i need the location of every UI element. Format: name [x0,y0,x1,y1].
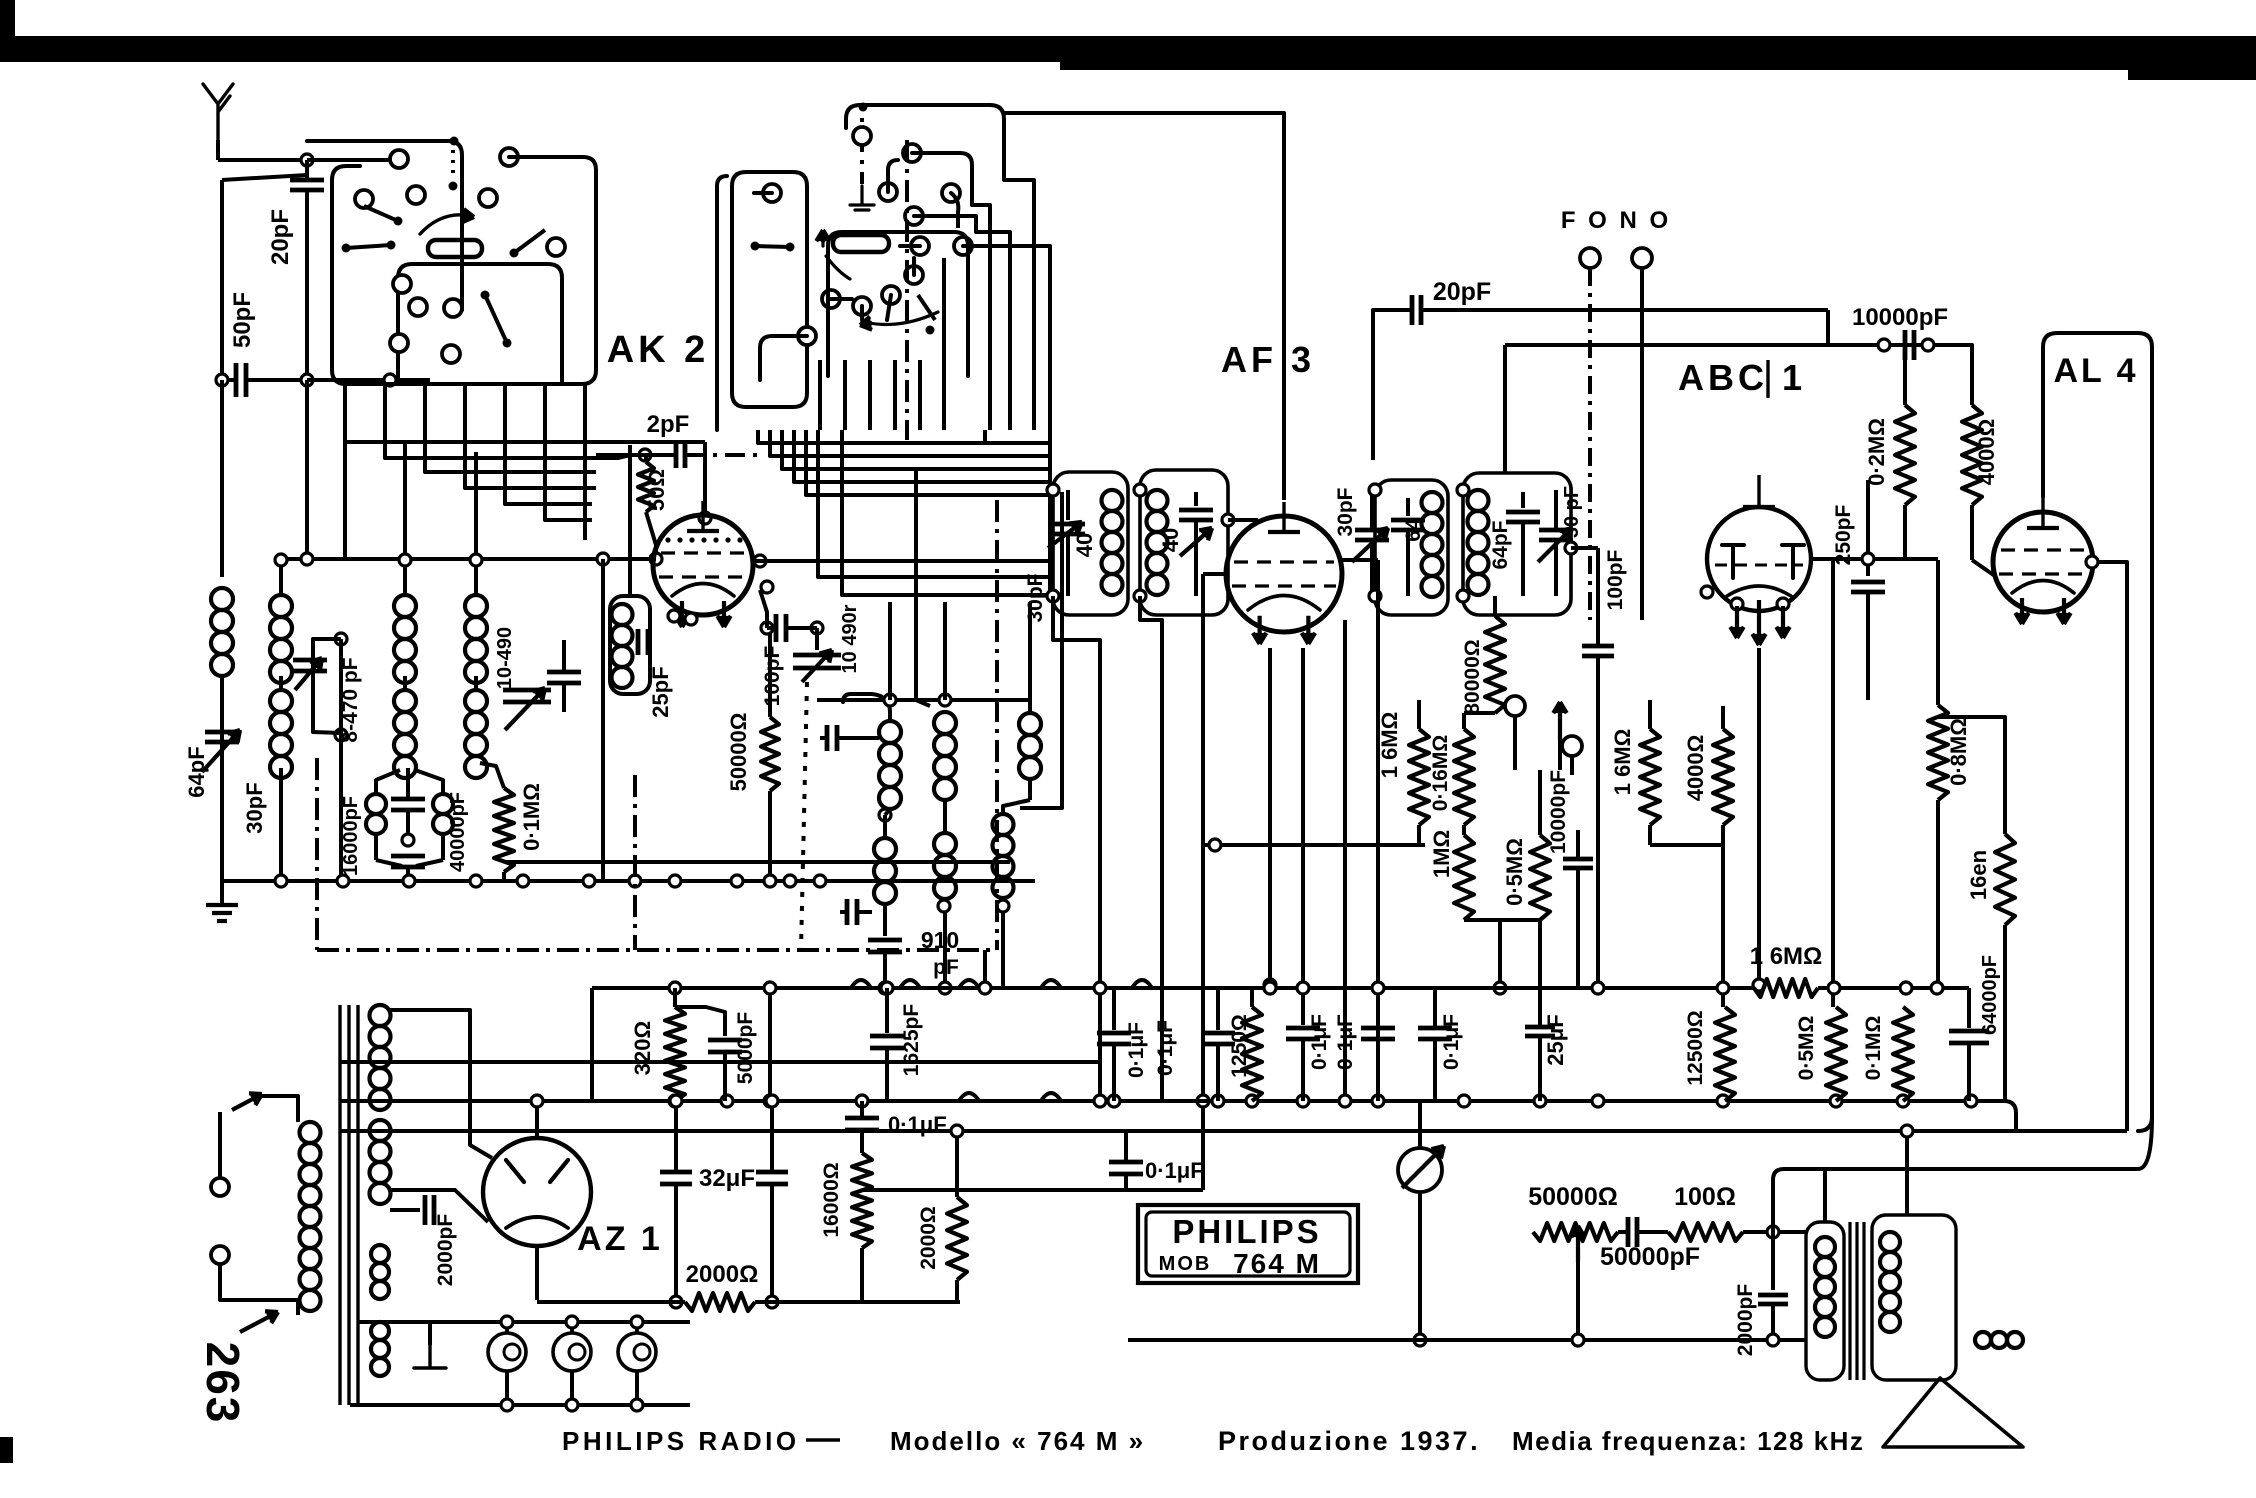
resistor 320Ω [665,1007,685,1101]
bus junction dots R4 [669,1095,681,1107]
power transformer secondary top [370,1005,391,1026]
shield dash-dot vertical right [995,500,999,950]
power transformer secondary bottom [371,1322,389,1340]
caption dash [806,1438,840,1442]
switch S1 contact a [390,150,408,168]
resistor 100Ω tone [1668,1223,1743,1241]
switch S2 contact top [853,127,871,145]
wire mains bottom [220,1264,298,1315]
svg-text:AZ 1: AZ 1 [577,1220,663,1258]
svg-text:F O N O: F O N O [1561,207,1671,234]
FONO terminal left [1580,248,1600,268]
resistor 0.6MΩ [1454,729,1474,825]
dial lamp rail bottom [350,1403,690,1407]
wire osc B to rail [943,899,947,988]
wire IF1 to AF3 [1228,518,1258,522]
svg-text:320Ω: 320Ω [630,1021,655,1075]
wire L3 column [403,440,407,595]
svg-text:50pF: 50pF [229,292,256,348]
switch S1 lever 4 [510,249,519,258]
IF1 can left outline [1053,472,1128,615]
oscillator coil B upper [934,712,956,734]
wire drop x1203 [1201,845,1205,1190]
shield dash-dot vertical left [633,775,637,950]
capacitor 16000pF [406,768,410,797]
coil L4 upper [465,595,487,617]
IF2 can right outline [1463,473,1571,615]
svg-text:AK 2: AK 2 [607,329,710,371]
wire harness l6 [545,464,592,520]
trimmer capacitor 30pF antenna [205,730,239,735]
svg-text:20pF: 20pF [267,209,294,265]
switch S1 lever 1 [342,244,351,253]
svg-text:25μF: 25μF [1543,1014,1568,1065]
svg-text:40: 40 [1072,533,1097,557]
resistor 1250Ω a [1242,1007,1262,1101]
switch S2 ground arrow [850,186,874,210]
IF1 variable capacitor 40 [1066,490,1070,520]
svg-text:764 M: 764 M [1233,1248,1321,1279]
svg-text:2000pF: 2000pF [1734,1284,1757,1357]
svg-text:0·5MΩ: 0·5MΩ [1795,1016,1818,1081]
resistor 12500Ω [1715,1007,1735,1101]
node 50pF right [301,374,313,386]
capacitor 0.1uF c [1361,1026,1395,1031]
resistor 4000Ω top [1962,405,1982,505]
harness right horizontal bundle [758,430,1050,443]
resistor 16en AL4 [1995,834,2015,925]
wire 20pF down right [1826,310,1830,345]
bus rail R4 y1101 [340,1099,2004,1103]
svg-text:10 490r: 10 490r [839,604,861,673]
svg-text:2000Ω: 2000Ω [686,1261,759,1288]
wire drop x1303 [1301,648,1305,1025]
switch S1 lever 3 [394,217,403,226]
coil L2 upper [270,595,292,617]
wire harness l5 [505,458,592,504]
wire harness h6 [818,430,1050,577]
svg-text:64pF: 64pF [1489,520,1512,569]
output transformer secondary box [1872,1215,1956,1380]
wire L1 down [220,676,224,881]
capacitor 25uF [1525,1025,1555,1030]
wire mains top [262,1096,298,1122]
svg-text:0·5MΩ: 0·5MΩ [1502,838,1527,906]
padder coil b [433,794,453,814]
svg-text:2pF: 2pF [647,411,690,438]
wire AF3 cathode down [1268,648,1272,985]
svg-text:Modello « 764 M »: Modello « 764 M » [890,1426,1145,1456]
wire AK2 grid rail y559 [281,557,656,561]
wire FONO right [1640,268,1644,620]
svg-text:30 pF: 30 pF [1561,486,1583,538]
wire x630 column [628,445,632,596]
switch S2 contact 9 [853,297,871,315]
resistor 0.2MΩ [1895,405,1915,505]
svg-text:2000pF: 2000pF [434,1214,457,1287]
svg-text:0·1MΩ: 0·1MΩ [1862,1016,1885,1081]
switch S2 rotor slider [833,235,889,252]
svg-text:64pF: 64pF [184,746,209,797]
wire frame return to tone junction [1773,1117,2152,1225]
voice coil [1975,1332,1991,1348]
svg-text:1250Ω: 1250Ω [1228,1014,1251,1078]
capacitor 250pF [1866,560,1870,576]
coil L2 lower [270,690,292,712]
IF2 right coil [1468,490,1489,511]
wire antenna to junction [216,140,220,160]
resistor 50000Ω [768,630,772,717]
IF2 right capacitor 64pF [1521,492,1525,508]
node antenna junction [301,154,313,166]
wire FONO left dash-dot [1588,268,1592,620]
oscillator coil A lower [874,838,896,860]
capacitor 20pF antenna series [305,160,309,180]
svg-text:64000pF: 64000pF [1979,955,2001,1035]
switch S1 contact c [355,190,373,208]
coil L1 antenna [211,588,233,610]
switch S1 index dot [450,137,459,146]
switch S1 contact i [444,299,462,317]
svg-text:Produzione 1937.: Produzione 1937. [1218,1426,1480,1456]
wire drop x1162 [1140,596,1162,1101]
switch S2 contact 7 [905,266,923,284]
resistor 16000Ω PSU [852,1153,872,1248]
resistor 80000Ω [1485,616,1505,713]
switch S1 contact d [407,186,425,204]
tube AL4 [1993,512,2093,612]
svg-text:16en: 16en [1966,850,1991,900]
svg-text:40: 40 [1158,528,1183,552]
switch S2 lever 2 [926,326,935,335]
node tone junction [1767,1226,1779,1238]
antenna [203,84,233,140]
wire 20pF column down [305,380,309,559]
output transformer primary box [1806,1222,1844,1380]
svg-text:AL 4: AL 4 [2053,352,2138,390]
node 50pF left [216,374,228,386]
trimmer 10-490pF osc [815,628,819,650]
wire bundle below S1 [343,384,347,440]
IF1 right coil [1147,490,1168,511]
tube ABC1 grid dashes [1715,564,1803,567]
resistor 0.5MΩ [1530,835,1550,920]
wire harness vertical v2 [983,430,987,443]
dial lamp rail top [358,1320,690,1324]
wire drop x1759 cathode [1757,648,1761,985]
wire AZ1 filament lead [390,1190,488,1222]
wire left column down [220,380,224,577]
wire x603 column [601,559,605,881]
switch S1 contact e [479,189,497,207]
switch S2 contact 3 [942,184,960,202]
node IF2 terminals [1369,484,1381,496]
svg-text:4000Ω: 4000Ω [1683,735,1708,802]
switch S1 contact j [390,334,408,352]
svg-text:32μF: 32μF [699,1165,755,1192]
output transformer core [1848,1222,1851,1380]
switch S1 contact g [393,275,411,293]
wire 2pF dash link to S2 [685,453,760,457]
wire tone rail bottom [1128,1338,1806,1342]
svg-text:50000pF: 50000pF [1600,1243,1700,1271]
switch block S1 inner frame [398,264,562,384]
wire AK2 top riser [703,442,707,518]
power transformer secondary small [371,1245,389,1263]
svg-text:80000Ω: 80000Ω [1461,639,1484,714]
wire x985 to rail [983,950,987,985]
wire bank joins [1462,825,1466,835]
wire S2 right nest 4 [956,212,960,228]
svg-text:50000Ω: 50000Ω [1528,1183,1618,1211]
trimmer capacitor 10-490pF [503,688,551,693]
capacitor 2000pF mains [390,1208,420,1212]
svg-text:10000pF: 10000pF [1547,770,1570,854]
capacitor 32uF a [674,1101,678,1170]
bus junction dots R1 [669,982,681,994]
capacitor 20pF top coupling [1371,330,1375,460]
node IF1 terminals [1047,484,1059,496]
capacitor 2pF [630,453,676,457]
output transformer secondary coil [1880,1232,1900,1252]
capacitor 100pF detector [1571,546,1598,550]
capacitor 5000pF [675,1007,725,1036]
tube AK2 dotted grid [665,537,670,542]
switch S2 contact 4 [905,207,923,225]
svg-text:30pF: 30pF [1334,487,1357,536]
FONO terminal right [1632,248,1652,268]
tube AK2 (octode) [653,515,753,615]
wire x1284 drop to AF3 [1282,143,1286,500]
dash gang link osc [801,682,807,950]
ground rail left [222,879,1035,883]
wire harness l1 [345,440,705,442]
capacitor 0.1uF e [860,1101,864,1116]
tube AZ1 [483,1138,591,1246]
wire 10000pF right corner [1928,345,1972,405]
wire HT to AZ1 plates [390,1010,492,1158]
wire AZ1 cathode down [535,1246,539,1300]
resistor 2000Ω PSU horizontal [685,1293,755,1311]
capacitor 10000pF top [1903,330,1908,360]
wire harness l3 [425,446,596,472]
wire drop x1723 [1721,845,1725,1007]
switch S2 contact 10 [882,286,900,304]
wire S2 right nest 3 [976,216,1010,430]
svg-text:0·8MΩ: 0·8MΩ [1946,718,1971,786]
IF1 trimmer arrow [1180,528,1212,556]
resistor 0.1MΩ b [1893,1007,1913,1101]
svg-text:PHILIPS RADIO: PHILIPS RADIO [562,1426,800,1456]
svg-text:25pF: 25pF [648,666,673,717]
svg-text:30pF: 30pF [242,782,267,833]
padder coil a [366,794,386,814]
wire junction down-left leg [305,160,309,175]
wire bank bottom bus [1203,843,1425,847]
wire junction to switch block [307,158,399,162]
scan artifact: top black bar [14,36,2256,62]
IF2 trimmer 30pF [1539,528,1573,533]
svg-text:40000pF: 40000pF [447,792,469,872]
mains switch [211,1178,229,1196]
capacitor 25pF osc [636,629,641,655]
capacitor 0.1uF d [1433,988,1437,1028]
switch S2 contact 11 [798,327,816,345]
svg-text:50000Ω: 50000Ω [726,713,751,792]
potentiometer 50000Ω tone [1533,1223,1618,1241]
switch S2 lever 1 [751,242,760,251]
wire S2 top to AF3 drop [1004,113,1284,143]
wire drop x1578 [1576,880,1580,988]
wire bus y380 to block1 [307,378,430,382]
capacitor 0.1uF f [1124,1131,1128,1160]
potentiometer contact 1 [1505,696,1525,716]
oscillator coil A upper [879,721,901,743]
wire R4 corner to R5 [2004,1101,2016,1131]
dial lamp 1 [488,1333,526,1371]
wire 50ohm to AK2 grid [646,512,656,559]
svg-text:1 6MΩ: 1 6MΩ [1750,943,1823,970]
capacitor 32uF b [770,1101,774,1170]
switch S2 arc 2 [864,312,938,324]
switch block S2 inner frame [828,232,968,376]
wire drop x1128 (IF1 ground) [1053,596,1100,1101]
oscillator coil C upper [1019,713,1041,735]
AL4 boundary frame [2043,333,2152,1131]
wire drop x1598 [1596,700,1600,988]
switch S2 rotor arrow [821,232,824,246]
dial lamp 2 [553,1333,591,1371]
nameplate PHILIPS MOB 764M outer [1138,1205,1358,1283]
wire AK2 grid row y455 [596,453,630,457]
wire R1 drop x770 [768,988,772,1101]
wire plate rail y559 [1833,557,1938,561]
potentiometer wiper arrow [1558,702,1562,740]
wire L2 column [279,559,283,595]
wire tone wiper down [1576,1262,1580,1340]
wire bank bottoms y920 [1464,918,1540,922]
capacitor 0.1uF b [1286,1026,1320,1031]
tuning meter [1398,1148,1442,1192]
svg-text:20pF: 20pF [1433,278,1491,306]
capacitor 10000pF AVC [1563,857,1593,862]
switch S2 dash-dot spindle [860,118,864,184]
coil L3 lower [394,690,416,712]
oscillator coil C lower [993,814,1014,835]
svg-text:0·1μF: 0·1μF [1308,1014,1331,1070]
svg-text:0·1MΩ: 0·1MΩ [519,783,544,851]
switch S2 contact 8 [822,290,840,308]
mains lever arrow [232,1094,262,1110]
wire y345 link [1505,343,1928,347]
node coil bank top joins [275,554,287,566]
svg-text:4000Ω: 4000Ω [1974,419,1999,486]
wire riser to IF1 [1004,246,1050,472]
dial lamp 3 [618,1333,656,1371]
power transformer secondary mid [370,1120,391,1141]
IF1 right capacitor 40 [1194,492,1198,506]
svg-text:Media frequenza: 128 kHz: Media frequenza: 128 kHz [1512,1426,1864,1456]
capacitor 910pF [883,904,887,936]
bus rail R3 y1062 [340,1060,1100,1064]
wire harness l4 [465,452,596,488]
svg-text:30pF: 30pF [1024,573,1047,622]
switch S1 contact b [500,148,518,166]
wire PSU rail [857,1300,960,1304]
hop bumps R1 [851,980,871,988]
rail R8 y1190 [862,1188,1203,1192]
IF2 can left outline [1375,480,1448,615]
ground symbol left rail [220,881,224,905]
wire 0.2M top lead [1903,345,1907,405]
coil L5 oscillator [612,604,633,625]
svg-text:16000pF: 16000pF [340,796,362,876]
wire S2 contact1 link [912,153,972,180]
IF2 coil right [1422,492,1443,513]
IF1 can right outline [1140,470,1228,615]
potentiometer contact 2 [1562,736,1582,756]
power transformer core [338,1005,341,1405]
wire drop x1500 [1498,920,1502,988]
wire harness l2 [385,440,630,458]
wire drop x1345 [1343,620,1347,1101]
switch S2 index dot [859,103,868,112]
wire S1 to AK2 bundle right side [509,155,560,159]
svg-text:263: 263 [197,1342,249,1425]
switch S1 contact f [547,238,565,256]
tube AF3 [1226,516,1342,632]
wire L4 column [474,452,478,595]
hop bumps R4 [959,1093,979,1101]
node osc A mid [879,809,891,821]
svg-text:10-490: 10-490 [494,627,516,689]
svg-text:12500Ω: 12500Ω [1684,1010,1707,1085]
resistor 0.5MΩ b [1826,1007,1846,1101]
switch block S1 outline [307,141,462,175]
svg-text:0·1μF: 0·1μF [888,1112,947,1137]
capacitor pad L4 [547,670,581,675]
wire IF2 top link [1503,345,1507,473]
coil L3 upper [394,595,416,617]
wire tone junction up [1771,1225,1775,1232]
svg-text:16000Ω: 16000Ω [820,1162,843,1237]
capacitor 0.1uF a [1112,988,1116,1030]
tube ABC1 diode plates [1722,545,1744,578]
svg-text:5000pF: 5000pF [734,1012,757,1085]
wire secondary top to R5 [1905,1131,1909,1215]
capacitor 64000pF [1967,988,1971,1028]
switch S1 index dot 2 [449,182,458,191]
wire S2 right nest 2 [972,180,990,430]
tube ABC1 (duodiode-triode) [1707,507,1811,611]
wire AK2 right pins [754,555,766,567]
capacitor 50000pF tone [1626,1217,1631,1247]
power transformer primary coil [300,1122,321,1143]
wire drop x1540 [1538,920,1542,1027]
mains switch lever bottom [240,1312,278,1332]
oscillator coil B lower [934,833,956,855]
rail y862 [505,860,1010,864]
capacitor osc pad b [840,910,847,914]
svg-text:50Ω: 50Ω [644,469,669,511]
wire S2 bottom bundle [818,360,822,430]
bus rail R5 y1131 [340,1129,2127,1133]
switch S1 rotor slider [428,240,482,257]
switch S2 contact 12 [763,184,781,202]
svg-text:0·16MΩ: 0·16MΩ [1429,735,1452,811]
wire drop x1373b [1376,560,1380,1101]
speaker cone [1883,1378,2023,1447]
